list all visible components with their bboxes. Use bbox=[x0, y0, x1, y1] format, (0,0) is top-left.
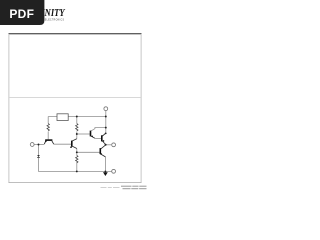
svg-text:PDF: PDF bbox=[9, 7, 34, 21]
svg-text:ELECTRONICS: ELECTRONICS bbox=[45, 18, 65, 21]
